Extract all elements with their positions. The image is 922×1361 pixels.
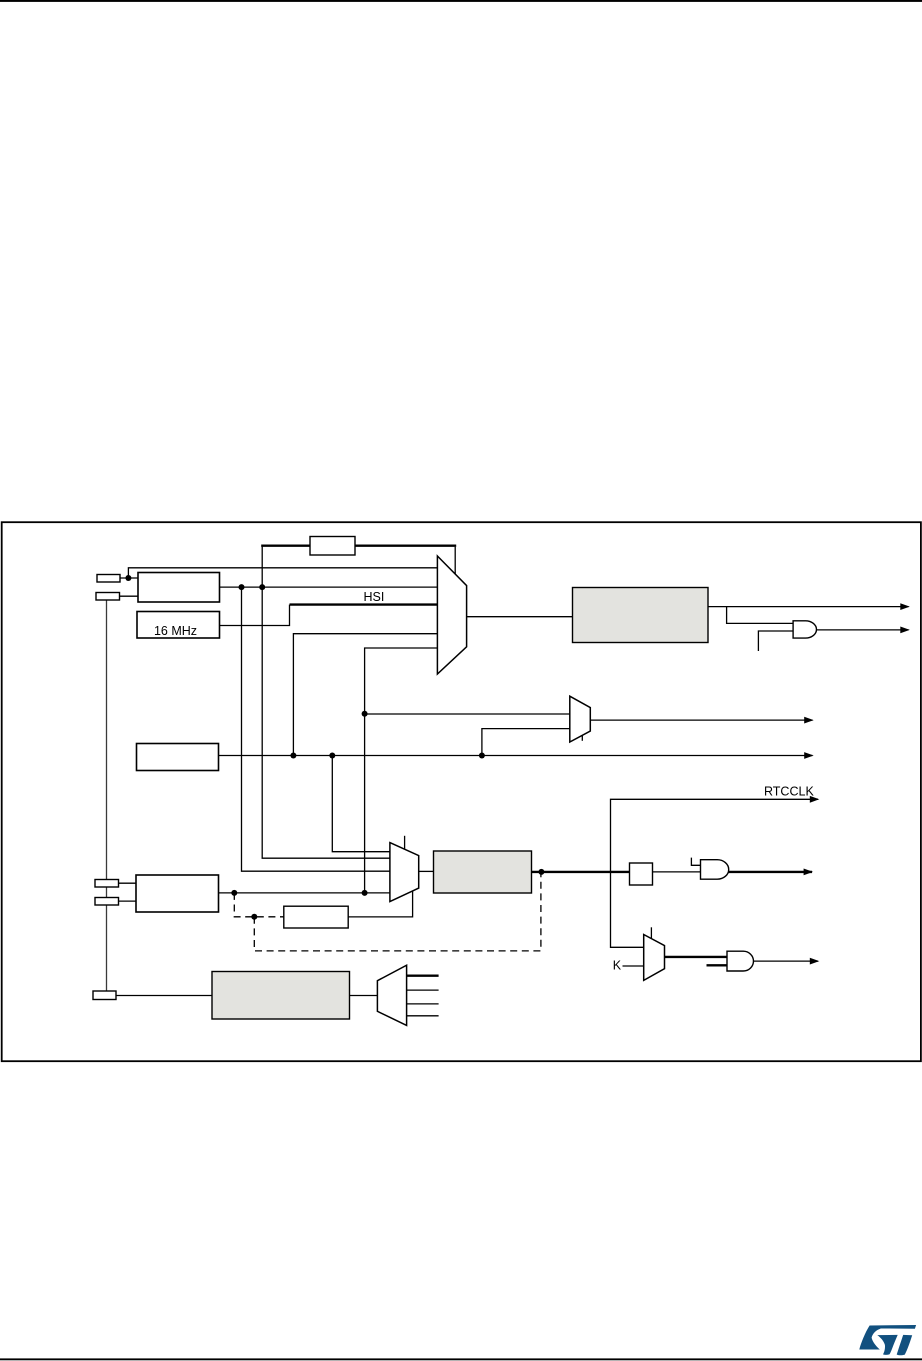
svg-text:HSI: HSI (364, 590, 385, 604)
svg-text:K: K (613, 959, 622, 973)
svg-text:16 MHz: 16 MHz (154, 624, 197, 638)
svg-text:RTCCLK: RTCCLK (764, 784, 814, 798)
